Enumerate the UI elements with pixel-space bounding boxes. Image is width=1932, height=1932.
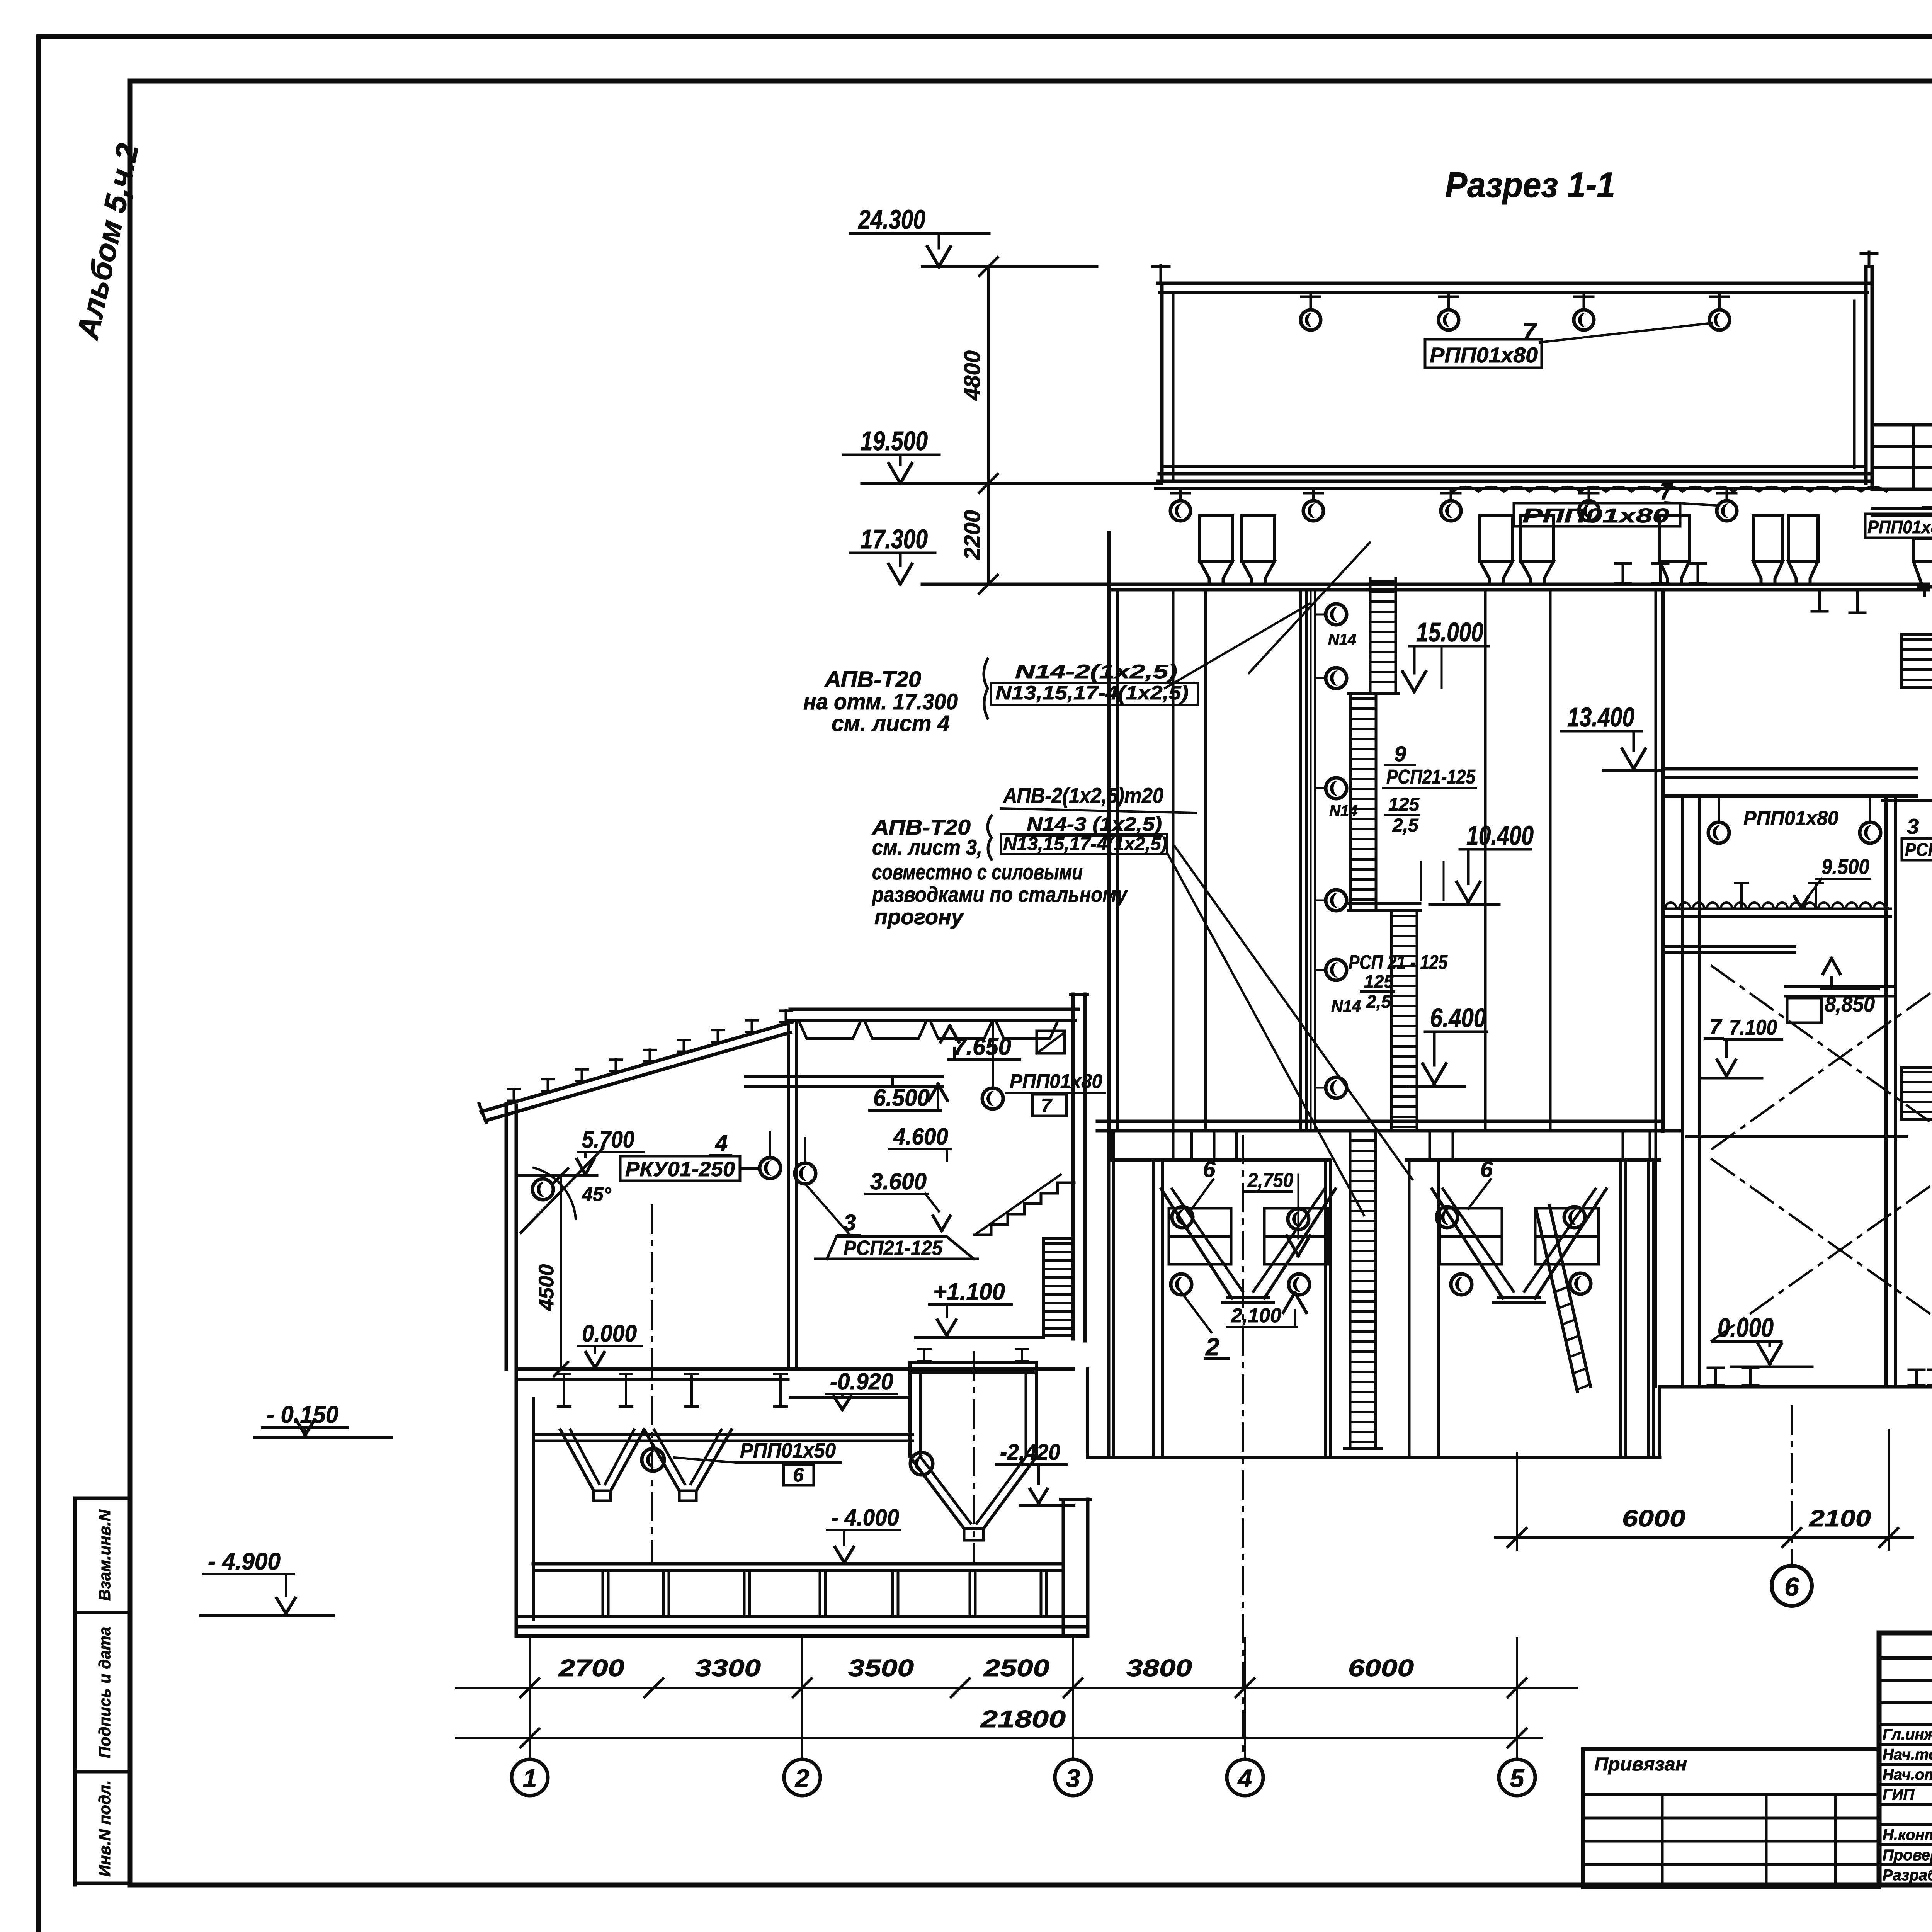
svg-text:4: 4 (715, 1131, 728, 1156)
svg-text:разводками по стальному: разводками по стальному (871, 882, 1128, 906)
ground floor 0.000 (516, 1367, 1073, 1371)
posts under 19.350 bridge (1818, 590, 1821, 611)
basement left wall (515, 1369, 518, 1636)
designer rows (1879, 1743, 1932, 1746)
svg-text:РСП21-125: РСП21-125 (1905, 840, 1932, 860)
svg-text:2,100: 2,100 (1231, 1304, 1281, 1327)
dimension line 6000-2100 (axis 5-6) (1516, 1453, 1518, 1549)
axis 4 centre line (1242, 1136, 1244, 1757)
svg-text:совместно с силовыми: совместно с силовыми (872, 860, 1083, 884)
svg-text:+1.100: +1.100 (933, 1279, 1005, 1305)
svg-text:6: 6 (793, 1464, 804, 1486)
feed hoppers on 17.300 slab (1200, 516, 1233, 561)
cement bin (right) (910, 1361, 1036, 1364)
svg-text:125: 125 (1388, 794, 1420, 815)
bridge floor 19.350 to tower (1872, 507, 1932, 510)
roof hatch box (1037, 1031, 1065, 1053)
svg-text:- 0.150: - 0.150 (267, 1401, 338, 1428)
ground line left (255, 1436, 391, 1439)
basement right wall (1062, 1502, 1065, 1636)
gallery roof stub right (1868, 252, 1871, 267)
level line 13.400 (1604, 769, 1662, 772)
svg-text:13.400: 13.400 (1567, 702, 1634, 732)
svg-text:9: 9 (1394, 742, 1406, 766)
silo interior walls (1172, 590, 1175, 1131)
leader to conduit at 17.300 (1165, 604, 1310, 688)
svg-text:45°: 45° (582, 1184, 612, 1205)
platform at 7.100 (1785, 985, 1894, 988)
floor support stubs (563, 1374, 565, 1406)
svg-text:1: 1 (523, 1764, 537, 1793)
luminaire at bin (910, 1452, 933, 1475)
svg-text:2: 2 (1205, 1333, 1219, 1361)
luminaire at conveyors (642, 1449, 664, 1471)
svg-text:2200: 2200 (960, 510, 985, 560)
5.400 floor line in annex (1687, 1135, 1907, 1138)
luminaires under sloped roof (769, 1132, 771, 1158)
svg-text:4: 4 (1237, 1764, 1252, 1793)
luminaires at hoppers (1172, 1207, 1193, 1228)
axis extension lines (529, 1638, 531, 1696)
svg-text:N14-3 (1х2,5): N14-3 (1х2,5) (1027, 813, 1162, 835)
svg-text:2,750: 2,750 (1247, 1169, 1293, 1192)
svg-text:РКУ01-250: РКУ01-250 (625, 1158, 735, 1181)
svg-text:N14-2(1х2,5): N14-2(1х2,5) (1015, 661, 1177, 682)
svg-text:прогону: прогону (874, 905, 964, 929)
svg-text:N14: N14 (1331, 997, 1361, 1015)
svg-text:РСП21-125: РСП21-125 (844, 1236, 943, 1260)
silo bottom slab (1097, 1120, 1663, 1123)
svg-text:N13,15,17-4(1х2,5): N13,15,17-4(1х2,5) (995, 682, 1189, 704)
side platforms left of tower (1901, 635, 1932, 687)
annex luminaires under 13.400 slab (1718, 796, 1720, 822)
gallery left wall (1160, 284, 1164, 481)
svg-text:Провер.: Провер. (1883, 1847, 1932, 1864)
silo wall luminaires N14 (1315, 614, 1325, 616)
svg-text:7.650: 7.650 (953, 1034, 1011, 1060)
svg-text:РПП01х80: РПП01х80 (1743, 807, 1838, 830)
gallery ceiling luminaires (1310, 292, 1312, 310)
crane runway beam (746, 1075, 943, 1078)
svg-text:РСП 21 - 125: РСП 21 - 125 (1349, 951, 1448, 974)
luminaires under gallery floor (1179, 488, 1182, 501)
13.400 floor slab of right annex (1663, 767, 1917, 771)
roof purlin I-beams (513, 1089, 515, 1100)
svg-text:7: 7 (1041, 1095, 1053, 1116)
basement floor -4.000 (533, 1562, 1063, 1566)
dimension line 2700-3300-3500-2500-3800-6000 (456, 1687, 1577, 1689)
svg-text:2100: 2100 (1809, 1505, 1871, 1531)
svg-text:Разраб: Разраб (1883, 1867, 1932, 1884)
svg-text:РПП01х50: РПП01х50 (740, 1439, 836, 1462)
ladder flight 6.400-10.400 (1390, 913, 1393, 1131)
edge beam band under silo (1109, 1158, 1329, 1162)
svg-text:Подпись и дата: Подпись и дата (95, 1627, 114, 1758)
lower stair flight (section) (1043, 1238, 1073, 1336)
12.600 floor line in annex (1883, 799, 1932, 802)
hopper at hoist shaft (1913, 539, 1932, 561)
tower floor at 19.350 (1919, 585, 1932, 589)
tower base posts (1915, 1370, 1918, 1386)
discharge hoppers group A (1169, 1207, 1231, 1210)
svg-text:-0.920: -0.920 (830, 1369, 893, 1395)
svg-text:15.000: 15.000 (1416, 617, 1483, 647)
title block upper rows (1879, 1656, 1932, 1660)
svg-text:см. лист 4: см. лист 4 (832, 711, 950, 736)
svg-text:3500: 3500 (848, 1655, 914, 1682)
svg-text:125: 125 (1364, 971, 1394, 992)
svg-text:Нач.то: Нач.то (1883, 1746, 1932, 1763)
screw conveyor hoppers (twin V) (560, 1430, 594, 1491)
support columns under silo (1152, 1160, 1155, 1458)
svg-text:2700: 2700 (558, 1655, 624, 1682)
overall dimension 21800 (456, 1737, 1542, 1739)
roof waterproofing wavy line (1453, 487, 1886, 492)
svg-text:см. лист 3,: см. лист 3, (872, 835, 982, 859)
gallery roof stub left (1160, 265, 1162, 283)
level line -4.900 (201, 1614, 333, 1617)
svg-text:-2,420: -2,420 (1000, 1440, 1060, 1465)
right annex columns (1681, 796, 1684, 1387)
svg-text:2,5: 2,5 (1366, 992, 1391, 1012)
svg-text:6: 6 (1784, 1572, 1799, 1602)
svg-text:АПВ-Т20: АПВ-Т20 (824, 667, 921, 692)
gallery right wall (1853, 301, 1856, 468)
svg-text:4500: 4500 (535, 1264, 558, 1311)
svg-text:РПП01х80: РПП01х80 (1430, 343, 1538, 367)
level line 19.500 (862, 482, 1162, 485)
gallery roof (1158, 282, 1870, 285)
svg-text:Гл.инж: Гл.инж (1883, 1726, 1932, 1743)
bin suspension posts (923, 1349, 925, 1361)
svg-text:N14: N14 (1329, 803, 1357, 820)
foundation band (533, 1569, 1063, 1572)
grid axis bubbles 1-5 (529, 1696, 531, 1759)
silo wall continuation to pit (1107, 1131, 1111, 1458)
svg-text:7.100: 7.100 (1729, 1015, 1777, 1039)
svg-text:21800: 21800 (980, 1706, 1066, 1733)
foundation slab (516, 1625, 1088, 1629)
svg-text:9.500: 9.500 (1821, 854, 1869, 879)
svg-text:РПП01х80: РПП01х80 (1010, 1070, 1102, 1093)
svg-text:Разрез 1-1: Разрез 1-1 (1445, 165, 1615, 205)
left building left wall (505, 1104, 508, 1369)
svg-text:0.000: 0.000 (1718, 1313, 1774, 1343)
lighting conduit riser (1310, 591, 1312, 1128)
svg-text:АПВ-2(1х2,5)т20: АПВ-2(1х2,5)т20 (1002, 783, 1163, 808)
ladder landing 15.000 (1349, 692, 1399, 695)
interior wall (787, 1020, 790, 1369)
svg-text:19.500: 19.500 (861, 426, 928, 456)
diagonal bracing (upper X) (1712, 966, 1932, 1149)
corrugated deck at 9.500 (1665, 903, 1888, 908)
svg-text:N14: N14 (1328, 631, 1356, 648)
svg-text:0.000: 0.000 (582, 1320, 637, 1347)
level line 24.300 (922, 265, 1097, 268)
ground line right (1660, 1385, 1932, 1389)
svg-text:5: 5 (1510, 1764, 1525, 1793)
handrail posts on deck (1740, 883, 1743, 908)
svg-text:6.400: 6.400 (1430, 1003, 1486, 1033)
gallery floor band (1162, 465, 1866, 468)
inclined chute ladder (1536, 1211, 1577, 1391)
svg-text:5.700: 5.700 (582, 1126, 634, 1153)
floor beam at 8.850 (1663, 945, 1795, 948)
ladder flight 10.400-15.000 (1349, 696, 1352, 908)
svg-text:Взам.инв.N: Взам.инв.N (95, 1509, 114, 1601)
svg-text:2500: 2500 (983, 1655, 1049, 1682)
svg-text:Н.контр: Н.контр (1883, 1827, 1932, 1844)
svg-text:7: 7 (1660, 478, 1673, 504)
svg-text:Нач.отд: Нач.отд (1883, 1766, 1932, 1783)
svg-text:Инв.N подл.: Инв.N подл. (95, 1780, 114, 1877)
silo left wall (1107, 533, 1111, 1131)
svg-text:3.600: 3.600 (870, 1168, 927, 1194)
ladder flight 15.000-17.300 (1369, 578, 1372, 693)
svg-text:N13,15,17-4(1х2,5): N13,15,17-4(1х2,5) (1003, 834, 1167, 854)
svg-text:Альбом 5,ч.2: Альбом 5,ч.2 (70, 140, 145, 343)
svg-text:РСП21-125: РСП21-125 (1386, 766, 1476, 788)
svg-text:6000: 6000 (1622, 1505, 1685, 1531)
ladder landing 10.400 (1349, 909, 1420, 912)
svg-text:4800: 4800 (960, 350, 985, 401)
title block frame (1879, 1633, 1932, 1885)
svg-text:- 4.900: - 4.900 (208, 1548, 281, 1575)
svg-text:ГИП: ГИП (1883, 1786, 1915, 1803)
svg-text:24.300: 24.300 (857, 204, 925, 235)
svg-text:7: 7 (1709, 1014, 1723, 1039)
vertical dimension line 4800/2200 (987, 267, 990, 584)
svg-text:4.600: 4.600 (893, 1124, 948, 1150)
left building sloped roof (481, 1022, 792, 1112)
annex ground floor posts (1714, 1368, 1717, 1386)
left building high roof (790, 1008, 1078, 1011)
leader lines to steel purlin (1175, 846, 1412, 1179)
roof slab panels (800, 1023, 860, 1039)
svg-text:2,5: 2,5 (1392, 815, 1419, 836)
landing +1.100 (916, 1336, 1043, 1339)
grid axis bubble 6 (1791, 1406, 1793, 1565)
hopper room ceiling (533, 1433, 913, 1436)
hoist machine room (1872, 425, 1932, 489)
svg-text:2: 2 (794, 1764, 810, 1793)
left building right wall (1071, 994, 1075, 1339)
svg-text:6.500: 6.500 (873, 1085, 930, 1111)
svg-text:6000: 6000 (1348, 1655, 1414, 1682)
stairs to +1.100 landing (975, 1183, 1074, 1235)
45 degree luminaire on wall (532, 1179, 553, 1200)
centre line of conveyors (651, 1206, 653, 1564)
level line 5.700 (518, 1174, 597, 1177)
svg-text:- 4.000: - 4.000 (831, 1505, 899, 1531)
svg-text:3: 3 (844, 1210, 856, 1235)
hoist ladder to pit (1349, 1131, 1352, 1448)
pit floor -0.920 (790, 1396, 910, 1399)
svg-text:РПП01х80: РПП01х80 (1867, 517, 1932, 537)
svg-text:3: 3 (1066, 1764, 1080, 1793)
svg-text:Привязан: Привязан (1594, 1754, 1687, 1775)
floor beams under 17.300 slab (1622, 563, 1624, 583)
centre line of bin (973, 1352, 975, 1561)
binding table Привязан (1583, 1749, 1879, 1888)
left margin stamp table (75, 1497, 130, 1500)
svg-text:3800: 3800 (1126, 1655, 1192, 1682)
silo right wall (1655, 590, 1657, 1131)
svg-text:17.300: 17.300 (861, 524, 928, 554)
17.300 slab (922, 583, 1928, 586)
svg-text:3: 3 (1907, 814, 1919, 838)
svg-text:10.400: 10.400 (1466, 820, 1534, 850)
svg-text:7: 7 (1522, 318, 1537, 345)
luminaire and label РПП01х80 / 7 (left building) (992, 1020, 994, 1088)
discharge hoppers group B (1440, 1207, 1502, 1210)
diagonal bracing (lower X) (1712, 1159, 1932, 1341)
svg-text:3300: 3300 (695, 1655, 761, 1682)
pit floor (1088, 1456, 1660, 1459)
